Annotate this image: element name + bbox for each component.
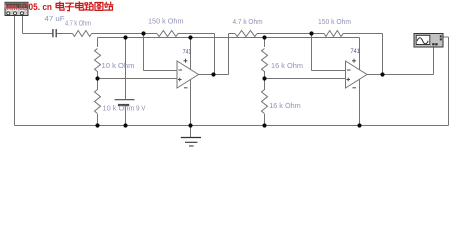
svg-text:www.dz1: www.dz1: [4, 2, 29, 13]
svg-text:4.7 k Ohm: 4.7 k Ohm: [65, 19, 91, 28]
svg-text:150 k Ohm: 150 k Ohm: [148, 17, 184, 26]
svg-text:741: 741: [351, 48, 361, 55]
svg-text:4.7 k Ohm: 4.7 k Ohm: [233, 17, 263, 26]
svg-text:16 k Ohm: 16 k Ohm: [271, 61, 303, 70]
svg-text:10 k Ohm: 10 k Ohm: [102, 61, 135, 70]
svg-text:150 k Ohm: 150 k Ohm: [318, 17, 351, 26]
svg-text:47 uF: 47 uF: [45, 14, 65, 23]
svg-text:05. cn: 05. cn: [29, 2, 53, 13]
svg-text:9 V: 9 V: [136, 104, 146, 113]
svg-text:16 k Ohm: 16 k Ohm: [269, 101, 301, 110]
svg-text:10 k Ohm: 10 k Ohm: [103, 104, 135, 113]
svg-text:741: 741: [183, 48, 192, 55]
